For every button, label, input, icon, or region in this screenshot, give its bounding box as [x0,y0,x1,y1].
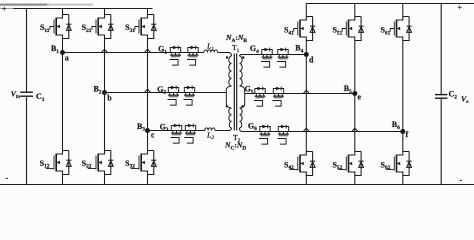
svg-text:S51: S51 [332,26,342,37]
svg-text:S11: S11 [40,23,50,34]
switch cell G5-2 [273,87,284,107]
svg-text:f: f [406,130,409,139]
wire node b to S22 [104,93,106,151]
svg-text:G1: G1 [158,45,167,56]
capacitor C2 [436,95,447,99]
wire leg f upper stub [402,4,404,17]
wire output rail upper [440,4,442,95]
polarity dot T2 primary [226,105,228,107]
polarity dot T2 secondary [241,105,243,107]
wire S61 source to node f [402,41,404,132]
wire input rail lower [26,96,28,184]
transistor S22 [88,151,114,175]
svg-text:Vin: Vin [11,90,21,101]
wire node e to S52 [354,94,356,152]
transformer T1 secondary winding [240,56,243,86]
svg-text:a: a [65,53,69,62]
label G3 [160,122,169,133]
node label b [107,94,112,103]
svg-text:S61: S61 [380,26,390,37]
transistor S62 [386,152,412,176]
label S31 [125,23,135,34]
wire S32 source to bottom rail [147,175,149,185]
capacitor C1 [21,92,32,96]
transistor S52 [338,152,364,176]
svg-text:S62: S62 [380,160,390,171]
polarity dot T1 secondary [242,56,244,58]
svg-text:-: - [6,174,9,183]
wire S52 source to bottom rail [354,176,356,185]
wire S62 source to bottom rail [402,176,404,185]
label S51 [332,26,342,37]
label Vo [461,95,469,106]
label C1 [36,92,45,103]
node label a [65,53,69,62]
svg-text:G2: G2 [157,85,166,96]
switch cell G1-1 [170,46,181,66]
svg-text:e: e [358,93,362,102]
switch cell G3-1 [171,124,182,144]
transformer T2 primary winding [229,108,232,128]
switch cell G6-1 [259,125,270,145]
wire node d to S42 [305,55,307,152]
node f junction [400,129,405,134]
inductor L2 [205,128,215,131]
label S21 [82,23,92,34]
label C2 [449,90,458,101]
svg-text:-: - [460,176,463,185]
wire L1 to T1 primary [218,53,232,57]
switch cell G2-1 [168,86,179,106]
svg-text:Vo: Vo [461,95,469,106]
crossover hop row f at leg d [303,128,309,131]
transistor S51 [342,17,364,41]
svg-text:S21: S21 [82,23,92,34]
svg-text:S32: S32 [125,159,135,170]
label T2 [233,133,241,144]
wire top-left rail fade [0,5,92,9]
input minus terminal [6,174,9,183]
switch cell G4-2 [277,48,288,68]
input plus terminal [2,5,7,14]
svg-text:C2: C2 [449,90,458,101]
wire row e: secondary tap to node e [245,93,355,95]
svg-text:B4: B4 [295,44,303,55]
wire L2 to T2 primary [215,128,232,131]
svg-text:S12: S12 [40,159,50,170]
node a junction [60,50,65,55]
wire S22 source to bottom rail [104,175,106,185]
wire primary series link [226,86,231,108]
label B4 [295,44,303,55]
svg-text:B1: B1 [51,44,59,55]
label B6 [392,120,400,131]
wire node a to S12 [62,53,64,151]
wire S12 source to bottom rail [62,175,64,185]
wire S41 source to node d [305,41,307,55]
label S12 [40,159,50,170]
switch cell G4-1 [261,48,272,68]
wire node c to S32 [147,131,149,151]
svg-text:B6: B6 [392,120,400,131]
wire leg e upper stub [354,4,356,17]
svg-text:+: + [2,5,7,14]
inductor L1 [204,50,218,53]
output minus terminal [460,176,463,185]
wire leg b upper stub [104,9,106,15]
label B3 [137,122,145,133]
label G4 [250,44,259,55]
svg-text:B2: B2 [93,85,101,96]
svg-text:NC:ND: NC:ND [224,141,246,152]
output plus terminal [458,3,463,12]
transistor S61 [390,17,412,41]
wire row a: node a to L1 [63,52,205,54]
svg-text:S22: S22 [82,159,92,170]
label NC:ND turns ratio [224,141,246,152]
label G5 [245,85,254,96]
wire node f to S62 [402,132,404,152]
svg-text:d: d [309,56,314,65]
label B1 [51,44,59,55]
wire secondary series link [240,86,245,108]
wire row f: T2 secondary to node f [240,128,403,132]
svg-text:G4: G4 [250,44,259,55]
transistor S41 [294,17,316,41]
wire top-left DC rail [14,8,152,10]
crossover hop row e at leg d [303,90,309,93]
label G1 [158,45,167,56]
wire leg d upper stub [305,4,307,17]
node d junction [304,52,309,57]
label S42 [284,160,294,171]
crossover hop row f at leg e [352,128,358,131]
crossover hop row a at leg c [145,49,151,52]
label G2 [157,85,166,96]
wire row d: T1 secondary to node d [240,55,307,57]
label S41 [284,26,294,37]
svg-text:L2: L2 [206,130,214,141]
node e junction [352,91,357,96]
switch cell G6-2 [278,125,289,145]
node label e [358,93,362,102]
label L1 [206,42,214,53]
wire S42 source to bottom rail [305,176,307,185]
polarity dot T1 primary [226,56,228,58]
label T1 [232,43,240,54]
transistor S31 [135,15,157,39]
transformer T1 primary winding [229,56,232,86]
svg-text:S42: S42 [284,160,294,171]
label S61 [380,26,390,37]
label NA:NB turns ratio [225,33,247,44]
switch cell G1-2 [187,46,198,66]
node label d [309,56,314,65]
svg-text:S31: S31 [125,23,135,34]
node label f [406,130,409,139]
node b junction [102,90,107,95]
wire S31 source to node c [147,39,149,131]
label L2 [206,130,214,141]
transistor S32 [131,151,157,175]
label S62 [380,160,390,171]
transformer core [234,54,236,131]
svg-text:c: c [151,131,155,140]
transistor S12 [46,151,72,175]
node c junction [145,128,150,133]
label S52 [332,160,342,171]
svg-text:C1: C1 [36,92,45,103]
svg-text:S41: S41 [284,26,294,37]
wire S51 source to node e [354,41,356,94]
svg-text:b: b [107,94,112,103]
label G6 [248,121,257,132]
switch cell G3-2 [185,124,196,144]
wire S11 source to node a [62,39,64,53]
svg-text:G3: G3 [160,122,169,133]
svg-text:+: + [458,3,463,12]
wire leg c upper stub [147,9,149,15]
label S22 [82,159,92,170]
crossover hop row b at leg c [145,89,151,92]
wire input rail upper [26,9,28,93]
wire bottom DC rail [0,184,474,186]
transistor S21 [92,15,114,39]
crossover hop row a at leg b [102,49,108,52]
switch cell G5-1 [254,87,265,107]
label B2 [93,85,101,96]
wire top-right DC rail [306,3,474,5]
transformer T2 secondary winding [240,108,243,128]
wire row c: node c to L2 [148,130,205,132]
transistor S11 [50,15,72,39]
svg-text:S52: S52 [332,160,342,171]
label S11 [40,23,50,34]
label Vin [11,90,21,101]
wire S21 source to node b [104,39,106,93]
svg-text:G6: G6 [248,121,257,132]
label S32 [125,159,135,170]
svg-text:T1: T1 [232,43,240,54]
label B5 [344,84,352,95]
switch cell G2-2 [184,86,195,106]
wire leg a upper stub [62,9,64,15]
wire row b: node b to T1/T2 primary tap [105,92,227,94]
svg-text:B3: B3 [137,122,145,133]
node label c [151,131,155,140]
wire output rail lower [440,98,442,184]
transistor S42 [290,152,316,176]
